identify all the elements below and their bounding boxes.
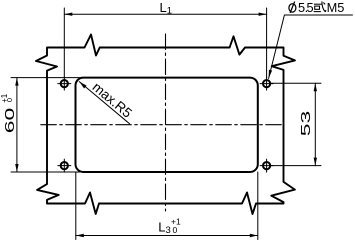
Chinese character HUO (or) drawn as strokes: [314, 1, 326, 12]
dimension 53 extension lines: [271, 83, 322, 165]
label 53 (rotated): [298, 111, 313, 137]
dimension 60 line: [16, 78, 18, 172]
svg-text:0: 0: [5, 98, 14, 102]
label 60 with tolerance (rotated): [0, 93, 17, 133]
arrowheads 60: [15, 78, 18, 86]
label L1: [160, 0, 173, 17]
dimension L3 extension lines: [76, 172, 258, 240]
arrowheads L3: [76, 234, 84, 237]
centerline vertical: [165, 34, 167, 211]
svg-text:0: 0: [173, 225, 178, 235]
dimension L1 extension lines: [64, 8, 266, 78]
svg-text:5: 5: [307, 0, 314, 15]
hole top-left: [61, 80, 68, 87]
dimension L3 line: [76, 235, 258, 237]
hole bottom-right: [263, 162, 270, 169]
hole bottom-left: [61, 162, 68, 169]
arrowhead max.R5 leader: [79, 82, 86, 89]
cutout rounded rectangle: [76, 78, 258, 172]
hole top-right: [263, 80, 270, 87]
label phi 5.5 or M5: [298, 0, 344, 15]
phi symbol: [289, 2, 296, 13]
svg-text:M5: M5: [327, 0, 345, 15]
centerline horizontal: [41, 124, 282, 126]
arrowhead hole leader: [269, 70, 273, 79]
arrowheads L1: [64, 13, 72, 16]
arrowheads 53: [314, 83, 317, 91]
dimension 60 extension lines: [11, 78, 80, 172]
svg-text:60: 60: [2, 108, 17, 134]
plate outline with break zigzags: [36, 35, 295, 215]
dimension L1 line: [64, 13, 266, 15]
label max.R5 (rotated along leader): [90, 79, 135, 120]
dimension 53 line: [314, 83, 316, 165]
label L3 with tolerance: [158, 216, 181, 236]
leader line max.R5: [79, 82, 129, 124]
svg-text:53: 53: [298, 111, 313, 137]
leader line for hole callout: [269, 15, 353, 79]
